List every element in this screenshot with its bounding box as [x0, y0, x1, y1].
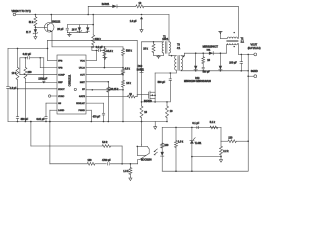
resistor R7 510 k — [122, 47, 124, 49]
svg-text:34.3 k: 34.3 k — [106, 50, 113, 53]
capacitor/gnd on Vin mid — [141, 14, 143, 16]
svg-text:SGND: SGND — [251, 70, 258, 73]
svg-text:BAS21: BAS21 — [102, 3, 110, 6]
ground arrow sense — [154, 122, 156, 127]
svg-text:GATE: GATE — [79, 95, 85, 98]
wire: F1 drop to ref node — [220, 127, 222, 141]
capacitor C5 2200 pF — [43, 82, 45, 84]
svg-text:VFB: VFB — [58, 68, 63, 70]
svg-text:330 pF: 330 pF — [21, 118, 29, 121]
resistor R4 10 k — [17, 48, 19, 67]
resistor R21 5.6 k — [102, 145, 111, 148]
diode D12 — [195, 52, 197, 54]
svg-text:2200 pF: 2200 pF — [38, 77, 47, 80]
svg-text:10 k: 10 k — [143, 47, 148, 50]
feedback W2 — [50, 163, 87, 165]
resistor R10 33.25 k — [107, 82, 109, 87]
svg-text:UVLO: UVLO — [79, 68, 85, 70]
svg-text:LGND: LGND — [58, 110, 64, 112]
svg-text:1.0 k: 1.0 k — [178, 141, 184, 144]
resistor R18 1.0 k — [175, 127, 177, 140]
resistor R12 10 k — [153, 42, 155, 44]
resistor R6 34.3 k — [103, 47, 105, 48]
resistor R17 100 opto feed — [161, 127, 163, 143]
svg-text:SYNC: SYNC — [58, 96, 64, 98]
TL431 U3 — [191, 127, 193, 140]
ground below C3 — [103, 56, 107, 58]
svg-text:560 pF: 560 pF — [203, 71, 211, 73]
wire: secondary ground column — [247, 54, 249, 171]
IC U1 CS51221 — [57, 55, 86, 114]
capacitor C12 0.1 uF — [196, 126, 198, 129]
svg-text:500 µF: 500 µF — [158, 81, 166, 84]
wire: column to W1 — [30, 122, 32, 147]
wire: primary bottom — [175, 70, 177, 73]
node SYNC terminal — [48, 95, 50, 97]
capacitor C3 0.1 uF vcc — [97, 49, 99, 52]
wire: rail corner to T2 — [226, 45, 228, 54]
svg-text:5.6 k: 5.6 k — [102, 141, 108, 144]
svg-text:5.1 k: 5.1 k — [210, 121, 216, 124]
wire: emitter column to VCC rail — [51, 32, 53, 47]
svg-text:MBRS2540CT: MBRS2540CT — [203, 46, 219, 49]
capacitor C8 470 pF — [86, 102, 104, 104]
resistor R8 4.3 k — [122, 68, 124, 69]
svg-text:0.01 µF: 0.01 µF — [36, 118, 45, 121]
wire: VFB pin — [39, 57, 41, 59]
resistor R2 10 — [136, 5, 144, 8]
svg-text:0.1 µF: 0.1 µF — [192, 122, 199, 125]
resistor R9 13 k — [122, 75, 124, 81]
svg-text:(5.0 V/1.5 A): (5.0 V/1.5 A) — [248, 47, 261, 50]
svg-text:1.5 µF: 1.5 µF — [10, 88, 17, 90]
svg-text:REF: REF — [58, 82, 63, 84]
svg-text:D13: D13 — [195, 78, 200, 80]
wire: T2 right leads — [237, 6, 239, 38]
zener D3 16 V — [78, 25, 80, 28]
ground arrow R23 — [129, 176, 131, 178]
diode D10 BAS21 — [140, 68, 143, 72]
wire: UVLO divider top — [104, 46, 106, 48]
wire: TL431 ref to divider — [192, 156, 221, 158]
wire: T1 bottom + ground — [154, 54, 164, 56]
svg-text:VCC: VCC — [80, 61, 85, 63]
wire: top reset rail A — [88, 5, 112, 7]
wire: RT/CT pin — [17, 88, 19, 90]
svg-text:16 V: 16 V — [72, 29, 77, 32]
wire: base node — [34, 26, 36, 29]
resistor R16 5.1 k — [210, 126, 218, 129]
wire: clamp bottom + ground — [67, 32, 87, 34]
svg-text:BAS21: BAS21 — [137, 69, 145, 72]
svg-text:100:1: 100:1 — [162, 38, 169, 41]
wire: B into T1 — [168, 15, 170, 42]
svg-text:20 µF: 20 µF — [57, 28, 64, 31]
wire: bottom bus secondary return — [162, 170, 248, 172]
opto LED arrows — [154, 149, 157, 155]
svg-text:MOC8106: MOC8106 — [141, 160, 152, 162]
svg-text:ISET: ISET — [80, 82, 86, 84]
diode D4 — [87, 25, 89, 28]
svg-text:VOUT: VOUT — [251, 44, 258, 47]
capacitor C1 1.5 uF input — [7, 85, 10, 87]
svg-text:2N2222: 2N2222 — [52, 20, 61, 23]
wire: col x136.8 down to gate — [136, 40, 138, 96]
resistor R22 100 — [87, 162, 95, 165]
wire: vcc node — [91, 46, 93, 48]
feedback top wire F1 — [162, 126, 221, 128]
svg-text:MBRS1100 MBRS140A23: MBRS1100 MBRS140A23 — [184, 80, 211, 83]
transistor Q2 MOSFET IRF520 — [148, 92, 150, 98]
svg-text:100 µF: 100 µF — [229, 61, 237, 64]
wire: OUT pin — [86, 74, 123, 76]
vcc clamp cluster: riser — [92, 14, 94, 16]
diode D14 opto LED — [161, 152, 164, 156]
resistor R5 200 — [25, 57, 27, 59]
svg-text:D10: D10 — [138, 66, 143, 68]
wire: COMP pin — [19, 58, 21, 75]
wire: left input column with C1 — [7, 48, 9, 86]
wire: ground bus G1 — [8, 121, 167, 123]
svg-text:1.0 µF: 1.0 µF — [130, 20, 137, 23]
wire: vcc pin riser — [96, 50, 98, 52]
svg-text:PGND: PGND — [78, 110, 85, 112]
svg-text:0.1 µF: 0.1 µF — [96, 46, 103, 49]
resistor R14 10 sense right — [166, 102, 168, 106]
capacitor C7 0.01 uF soft start — [46, 102, 57, 104]
wire: clamp top — [67, 24, 93, 26]
wire: secondary bottom rail — [180, 69, 182, 72]
capacitor C6 330 pF — [16, 116, 19, 118]
wire: R200 column to bus — [24, 82, 26, 121]
diode D11 forward — [209, 52, 213, 55]
ground arrow at divider — [220, 157, 222, 160]
wire: riser to reset rail A — [87, 14, 89, 16]
wire: H1 to divider — [8, 47, 48, 49]
svg-text:4700 pF: 4700 pF — [102, 159, 111, 162]
svg-text:470 pF: 470 pF — [93, 115, 101, 118]
transistor Q1 2N2222 startup — [44, 23, 54, 33]
svg-text:220: 220 — [228, 136, 233, 139]
wire: demag column x141.5 — [141, 42, 143, 69]
divider wire + R20 220 — [221, 140, 228, 142]
wire: LGND pin to W2 — [50, 109, 57, 111]
resistor R3 150 k — [92, 25, 94, 35]
svg-text:VIN(36 V TO 72 V): VIN(36 V TO 72 V) — [12, 11, 31, 13]
resistor R13 10 sense — [140, 106, 143, 118]
wire: ISET pin — [86, 81, 108, 83]
wire: FF pin — [86, 89, 123, 91]
wire: drain to primary — [154, 73, 156, 92]
wire: PGND pin — [86, 109, 91, 111]
feedback W1 — [31, 145, 102, 147]
wire: T2 top left to ground — [220, 38, 227, 40]
capacitor C2 20 uF — [66, 25, 68, 28]
svg-text:FFB: FFB — [58, 61, 63, 63]
capacitor C4 0.22 uF — [20, 57, 28, 59]
svg-text:COMP: COMP — [58, 75, 65, 77]
capacitor C13 4700 pF — [106, 163, 108, 166]
svg-text:510 k: 510 k — [126, 49, 133, 52]
wire: output rail — [238, 53, 254, 55]
capacitor C11 100 uF — [240, 54, 242, 61]
wire: T1 top lead — [142, 41, 164, 43]
diode D2 BAS21 — [112, 5, 117, 8]
resistor R11 10 gate — [128, 95, 136, 98]
svg-text:CS51221: CS51221 — [68, 74, 72, 86]
wire: feedforward line — [48, 39, 138, 41]
svg-text:33.25 k: 33.25 k — [110, 88, 119, 91]
svg-text:4.3 k: 4.3 k — [125, 68, 131, 71]
svg-text:11 V: 11 V — [26, 31, 31, 34]
svg-text:RT/CT: RT/CT — [58, 89, 65, 91]
svg-text:200: 200 — [28, 71, 33, 74]
resistor R1 51 k — [35, 14, 37, 16]
wire: secondary top to rectifier — [181, 55, 185, 57]
wire: Vin bus B — [16, 14, 169, 16]
wire: REF pin rail — [25, 81, 57, 83]
terminal VOUT — [254, 53, 257, 56]
wire: source to sense node — [154, 98, 156, 102]
svg-text:OUT: OUT — [80, 75, 85, 77]
diode D13 freewheel MBRS1100 — [220, 52, 222, 54]
wire: UVLO pin — [86, 67, 123, 69]
svg-text:2.2 k: 2.2 k — [223, 150, 229, 153]
wire: T1 right bottom to primary — [168, 53, 170, 56]
resistor R23 1.3 k — [130, 163, 132, 165]
zener D1 11 V — [34, 29, 37, 33]
svg-text:RDELAY: RDELAY — [76, 102, 85, 105]
svg-text:100: 100 — [164, 144, 169, 147]
capacitor C9 100 pF snubber — [170, 72, 172, 74]
transformer T2 2:1 output choke — [227, 37, 238, 39]
svg-text:1.3 k: 1.3 k — [123, 170, 129, 173]
svg-text:13 k: 13 k — [126, 82, 131, 85]
snubber R15 10 + C10 560 pF — [202, 52, 204, 54]
svg-text:10 k: 10 k — [12, 72, 17, 75]
wire: FFB pin — [47, 40, 49, 60]
optocoupler U2 MOC8106 — [141, 145, 143, 147]
resistor R19 2.2 k — [220, 141, 222, 146]
wire: GATE pin — [86, 96, 128, 98]
svg-text:100: 100 — [88, 159, 93, 162]
svg-text:0.22 µF: 0.22 µF — [23, 53, 32, 56]
svg-text:TL431: TL431 — [195, 142, 202, 145]
terminal SGND — [248, 75, 254, 77]
ground below zener — [34, 34, 36, 36]
